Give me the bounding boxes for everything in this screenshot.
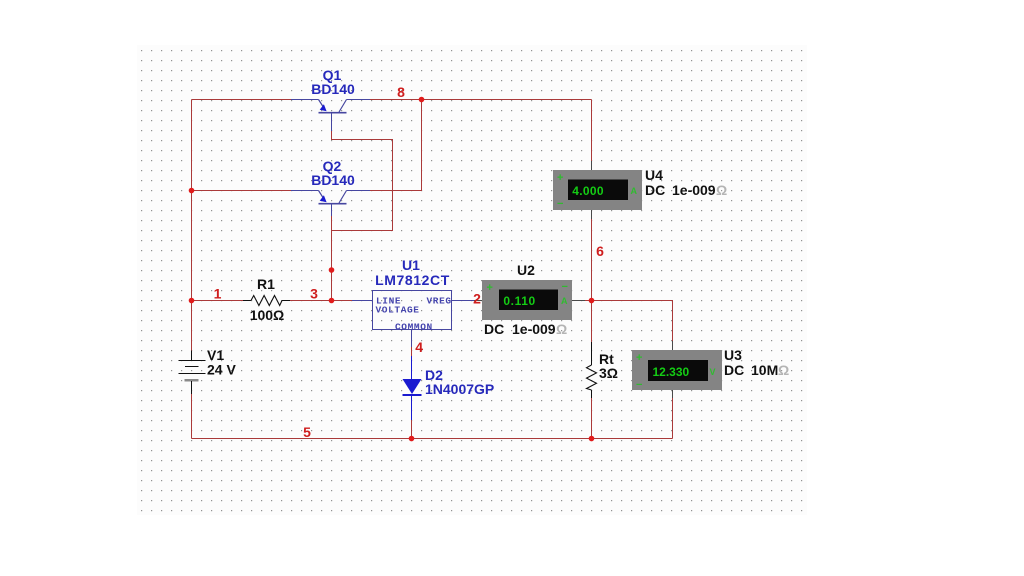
- junction Q2 base wire: [329, 267, 335, 273]
- svg-text:12.330: 12.330: [653, 365, 690, 379]
- svg-text:Ω: Ω: [778, 362, 789, 378]
- svg-text:1N4007GP: 1N4007GP: [425, 381, 494, 397]
- svg-text:Ω: Ω: [716, 182, 727, 198]
- grid canvas: [137, 45, 807, 515]
- svg-text:−: −: [636, 379, 642, 391]
- svg-text:3: 3: [310, 286, 318, 302]
- svg-text:+: +: [487, 282, 493, 294]
- wire: Q2 emitter to left rail: [192, 190, 292, 192]
- svg-text:1: 1: [214, 286, 222, 302]
- wire: net 4 U1 common to D2 anode: [411, 347, 413, 356]
- svg-text:U2: U2: [517, 262, 535, 278]
- svg-text:BD140: BD140: [311, 172, 355, 188]
- svg-text:1e-009: 1e-009: [512, 321, 556, 337]
- svg-text:5: 5: [303, 424, 311, 440]
- svg-text:DC: DC: [724, 362, 744, 378]
- wire: D2 cathode to net 5: [411, 420, 413, 439]
- svg-text:−: −: [557, 198, 563, 210]
- junction left rail / net 1: [189, 298, 195, 304]
- junction Rt / net 5: [589, 436, 595, 442]
- wire: net 1 from left rail to R1: [192, 300, 244, 302]
- junction node 8: [419, 97, 425, 103]
- svg-text:+: +: [557, 172, 563, 184]
- svg-text:10M: 10M: [751, 362, 778, 378]
- svg-text:V: V: [710, 367, 716, 377]
- svg-text:VOLTAGE: VOLTAGE: [376, 305, 420, 316]
- svg-text:100Ω: 100Ω: [250, 307, 285, 323]
- wire: U3 bottom to net 5: [672, 398, 674, 439]
- wire: node 6 branch right to U3 top: [592, 301, 673, 342]
- svg-text:1e-009: 1e-009: [672, 182, 716, 198]
- svg-text:2: 2: [473, 291, 481, 307]
- wire: net 3 from R1 to U1 input: [290, 300, 352, 302]
- wire: bottom net 5 horizontal: [192, 438, 673, 440]
- resistor Rt: [587, 342, 597, 398]
- svg-text:COMMON: COMMON: [395, 322, 433, 333]
- wire: net 6 vertical U4 to node and down to Rt: [591, 219, 593, 342]
- junction left rail / Q2 emitter: [189, 188, 195, 194]
- wire: top net 8 horizontal from left rail to right rail: [192, 99, 592, 101]
- svg-text:BD140: BD140: [311, 81, 355, 97]
- svg-text:6: 6: [596, 243, 604, 259]
- svg-text:R1: R1: [257, 276, 275, 292]
- wire: U2 right to node 6: [585, 300, 592, 302]
- svg-text:U4: U4: [645, 167, 663, 183]
- voltmeter U3: [632, 341, 722, 398]
- wire: Rt bottom to net 5: [591, 398, 593, 439]
- svg-text:A: A: [631, 186, 638, 196]
- svg-text:4: 4: [415, 339, 423, 355]
- svg-text:8: 8: [397, 84, 405, 100]
- svg-text:LM7812CT: LM7812CT: [375, 272, 450, 288]
- resistor R1: [243, 296, 290, 306]
- wire: left rail vertical V1 bottom: [191, 394, 193, 439]
- svg-text:DC: DC: [484, 321, 504, 337]
- svg-text:U3: U3: [724, 347, 742, 363]
- wire: Q1 base jog down to Q2 base line: [332, 131, 393, 231]
- svg-text:24 V: 24 V: [207, 362, 236, 378]
- junction node 3: [329, 298, 335, 304]
- svg-text:Ω: Ω: [556, 321, 567, 337]
- junction D2 / net 5: [409, 436, 415, 442]
- voltage regulator U1 LM7812CT: [352, 291, 464, 348]
- battery V1: [179, 351, 206, 395]
- svg-text:VREG: VREG: [427, 296, 452, 307]
- svg-text:DC: DC: [645, 182, 665, 198]
- wire: Q2 base down to node 3: [331, 216, 333, 301]
- junction node 6: [589, 298, 595, 304]
- svg-text:+: +: [636, 352, 642, 364]
- ammeter U4: [553, 161, 642, 219]
- wire: left rail vertical V1 top: [191, 100, 193, 351]
- svg-text:A: A: [561, 296, 568, 306]
- svg-text:−: −: [562, 281, 568, 293]
- wire: Q2 collector to node 8: [370, 100, 422, 191]
- svg-text:U1: U1: [402, 257, 420, 273]
- transistor Q1: [291, 100, 370, 132]
- ammeter U2: [474, 280, 585, 320]
- wire: net 2 from U1 output to U2: [464, 300, 474, 302]
- svg-text:3Ω: 3Ω: [599, 365, 618, 381]
- svg-text:0.110: 0.110: [503, 294, 535, 308]
- svg-text:4.000: 4.000: [572, 184, 604, 198]
- diode D2: [403, 356, 422, 420]
- wire: net 6 vertical top to U4: [591, 100, 593, 162]
- transistor Q2: [291, 191, 370, 217]
